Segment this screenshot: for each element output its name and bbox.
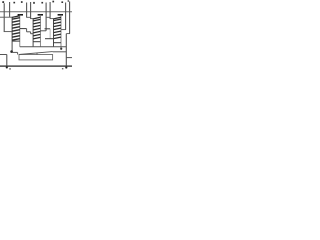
top bus line <box>0 11 72 13</box>
wire jog to coil L1 <box>0 16 12 18</box>
wire step horizontal <box>27 31 31 33</box>
wire into box left <box>12 51 18 53</box>
wire box to right drop <box>53 51 67 53</box>
node lead 5 (x=46.1) <box>45 3 47 31</box>
wire tap to coil L1 left rail <box>4 31 12 33</box>
junction dot right <box>60 48 62 50</box>
wire jog to coil L2 <box>30 18 33 20</box>
wire step L1 to L2 upper <box>20 28 27 30</box>
wire step vertical <box>26 29 28 32</box>
wire lead 7 (x=65.6) <box>65 3 67 30</box>
wire lower connector module3 <box>45 38 54 40</box>
coil L2 bottom <box>33 41 40 43</box>
node label c <box>52 1 54 3</box>
label 4 right <box>62 68 64 69</box>
label 4 left <box>9 68 11 69</box>
wire lead 8 (x=69.6) <box>69 2 71 34</box>
node label a1 <box>2 1 4 3</box>
wire jog to coil L3 <box>50 18 54 20</box>
wire lead 8 jog left <box>66 33 70 35</box>
junction dot ground left <box>6 66 8 68</box>
coil L2 right rail <box>39 15 41 47</box>
wire lead 1 (x=4.2 down to tap) <box>3 3 5 31</box>
coil L1 winding turns <box>12 16 20 40</box>
node label b4 <box>68 0 70 1</box>
coil L2 winding turns <box>33 17 40 39</box>
node label a4 <box>61 1 63 3</box>
ground line bottom <box>0 65 72 67</box>
wire slanted over box <box>19 52 53 55</box>
node label a3 <box>41 2 43 4</box>
node label b1 <box>13 2 15 4</box>
coil L3 top bar <box>58 14 63 16</box>
wire drop lead6 lower <box>49 29 51 39</box>
coil L1 top bar <box>18 14 23 16</box>
wire jog lead5 to lead6 <box>46 16 51 18</box>
coil L3 bottom <box>54 42 62 44</box>
node lead 3 (x=26.6) <box>26 3 28 18</box>
wire upper connector module3 <box>45 28 51 30</box>
junction dot left <box>10 50 13 53</box>
node label b2 <box>33 2 35 4</box>
coil L3 right rail <box>60 15 62 47</box>
wire right drop (x=66.3) <box>65 34 67 68</box>
coil L3 left rail <box>53 19 55 47</box>
wire ground left vertical <box>6 55 8 68</box>
wire L2 to lead5 <box>40 30 46 32</box>
node lead 4 (x=30.6) <box>30 2 32 19</box>
coil L2 left rail <box>32 19 34 47</box>
wire jog lead3 to lead4 <box>26 16 31 18</box>
wire step down to L2 <box>30 32 32 34</box>
coil L3 winding turns <box>54 17 62 38</box>
node lead 6 (x=50.1) <box>49 2 51 19</box>
coil L1 right rail <box>19 15 21 47</box>
node label a2 <box>21 1 23 3</box>
coil L2 top bar <box>38 14 43 16</box>
coil L1 left rail <box>11 17 13 53</box>
coil L1 bottom <box>12 40 20 42</box>
box (core) <box>19 55 53 60</box>
wire ground left horizontal <box>0 54 7 56</box>
wire stub to dot right <box>60 47 62 49</box>
wire lead 7 jog to coil L3 right rail <box>61 29 66 31</box>
bottom bus wire <box>20 46 67 48</box>
wire lead 2 (x=9.6) <box>9 2 11 17</box>
wire right drop to edge <box>66 57 72 59</box>
wire tick over box <box>36 53 38 55</box>
wire step into L2 <box>31 33 33 35</box>
junction dot ground right <box>65 66 67 68</box>
wire step into box <box>17 52 19 54</box>
